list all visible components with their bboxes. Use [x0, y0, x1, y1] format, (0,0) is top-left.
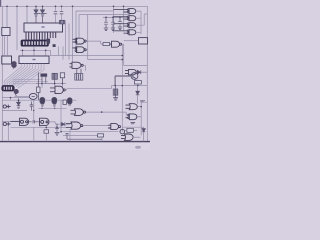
label VCC: [140, 101, 145, 102]
resistor R7 on gate C input: [103, 43, 110, 46]
gate T4: [114, 30, 136, 35]
wire A out: [86, 41, 103, 44]
wire R9 leads: [125, 130, 138, 136]
wire long mid run: [50, 55, 122, 57]
capacitor C8 marks: [66, 134, 103, 140]
box L1 top-left: [2, 28, 10, 36]
gate G2 (OR): [66, 122, 83, 129]
gate T1 (top stack): [114, 9, 136, 14]
LED D3 to ground: [17, 101, 21, 108]
wire fan U3 to connector: [4, 64, 44, 89]
wire top-right gate feeders: [114, 6, 124, 33]
transistor Q1: [115, 73, 138, 86]
connector J1 (hatched block): [2, 86, 14, 92]
scan corner artifact: [0, 0, 1, 7]
wire L1 pins: [5, 36, 8, 57]
gate D (NAND): [70, 62, 84, 68]
gate T2: [114, 16, 136, 21]
capacitor C7: [55, 124, 60, 136]
IC U3: [19, 56, 49, 64]
wire R2 out: [137, 116, 141, 118]
wire mid horizontal y100: [2, 100, 76, 132]
resistor R4: [63, 100, 66, 104]
label dot U1: [42, 26, 45, 27]
gate G-U (NAND): [50, 86, 65, 93]
IC U2: [2, 56, 12, 64]
capacitor C6: [52, 73, 57, 83]
wire Q1 emitter: [137, 79, 139, 85]
component row mid: diode D4: [41, 74, 47, 84]
wire bus into connector: [13, 79, 54, 83]
wire right border rail: [146, 6, 148, 141]
diode D9 vertical right: [142, 127, 145, 141]
label zz: [131, 123, 136, 124]
wire vertical with cap x61.5: [61, 6, 63, 23]
margin strip below border: [0, 143, 150, 150]
page smudge: [135, 146, 141, 149]
box REC on right border: [139, 38, 148, 44]
wire R4 out: [133, 136, 141, 138]
wire left lower runs: [2, 96, 34, 121]
gate B (NAND): [73, 47, 87, 53]
capacitor C3 beside U1: [60, 20, 65, 24]
wire B2 out: [48, 122, 61, 124]
gate Dx (NAND) right: [125, 69, 136, 74]
gate R3 (NAND): [108, 124, 121, 130]
diode D1: [34, 6, 40, 23]
wire R1 out: [138, 102, 148, 135]
resistor R2: [60, 73, 64, 84]
wire bottom-left runs: [11, 125, 71, 141]
background paper: [0, 0, 150, 150]
wire bottom border rail: [0, 141, 150, 143]
resistor R1 end bead: [47, 39, 51, 44]
gate R1 (OR): [126, 104, 138, 110]
terminal T1: [3, 105, 10, 109]
capacitor C1 plates: [54, 11, 58, 14]
transistor Q2: [40, 97, 45, 106]
transistor Q4: [67, 98, 72, 105]
gate G-B1: [11, 118, 29, 125]
gate T3: [114, 23, 136, 28]
wire G2 out: [83, 125, 108, 127]
gate R2 (NAND): [126, 114, 137, 120]
resistor network RN1 (hatched block): [21, 40, 49, 46]
wire mid junction row: [36, 84, 66, 90]
label dot U3: [33, 59, 36, 60]
transistor Q3: [52, 97, 57, 106]
capacitor C4: [30, 102, 34, 111]
IC U1: [24, 23, 63, 32]
diode D2: [40, 6, 46, 23]
resistor R9: [127, 128, 133, 132]
junction dots: [6, 6, 142, 133]
crystal X1: [75, 69, 83, 80]
capacitor bank C10: [111, 17, 115, 30]
wire B out: [86, 50, 122, 60]
capacitor C2 plates: [60, 11, 64, 14]
transistor Q6 blob: [14, 89, 18, 96]
resistor R5: [44, 130, 49, 133]
wire G1 out: [86, 112, 129, 115]
wire bus into cap row: [88, 15, 130, 50]
gate R4 (OR): [121, 134, 133, 140]
wire verticals from top bus left: [7, 6, 27, 50]
gate G1 (OR): [71, 109, 86, 116]
gate C (NAND): [110, 41, 122, 47]
junction dot pair: [41, 108, 55, 109]
diode D5: [61, 122, 70, 126]
wire nested corners to right gates: [59, 6, 131, 62]
capacitor C12 with ground: [113, 86, 118, 101]
wire REC feed: [124, 40, 139, 42]
wire U out to right: [65, 86, 147, 90]
lamp E1: [29, 93, 37, 99]
wire C out to corner rail: [122, 44, 148, 65]
wire right rail x122: [121, 44, 123, 132]
diode D7: [137, 70, 147, 74]
diode D8 vertical: [136, 86, 140, 104]
gate A (NAND): [73, 38, 87, 44]
wire top supply bus: [0, 5, 147, 7]
capacitor C5 link: [28, 120, 39, 123]
gate G-B2: [40, 118, 50, 125]
wire D out: [83, 65, 85, 71]
transistor Q5 blob under U2: [12, 62, 17, 69]
wire gate stack outputs: [136, 11, 148, 34]
lamp E1 mark: [32, 95, 35, 97]
wire long bottom run: [61, 132, 119, 142]
wire under transistor row: [38, 107, 66, 109]
wire T2 drop: [7, 126, 9, 142]
wire misc right-bottom: [122, 126, 143, 128]
transistor Q7 circle: [120, 129, 125, 134]
wire lamp lead: [15, 96, 30, 98]
wire vertical with cap x55.5: [55, 6, 57, 23]
wire left border rail: [1, 6, 3, 141]
wire row under RN1: [20, 46, 51, 56]
capacitor bank C11: [118, 17, 122, 29]
resistor R8: [134, 81, 141, 84]
resistor R6: [98, 134, 104, 137]
IC U1 pin row: [26, 32, 56, 40]
terminal T2: [3, 122, 10, 126]
bead component B1: [53, 44, 56, 47]
resistor R3 vertical: [37, 73, 40, 101]
capacitor bank C9: [104, 17, 108, 30]
